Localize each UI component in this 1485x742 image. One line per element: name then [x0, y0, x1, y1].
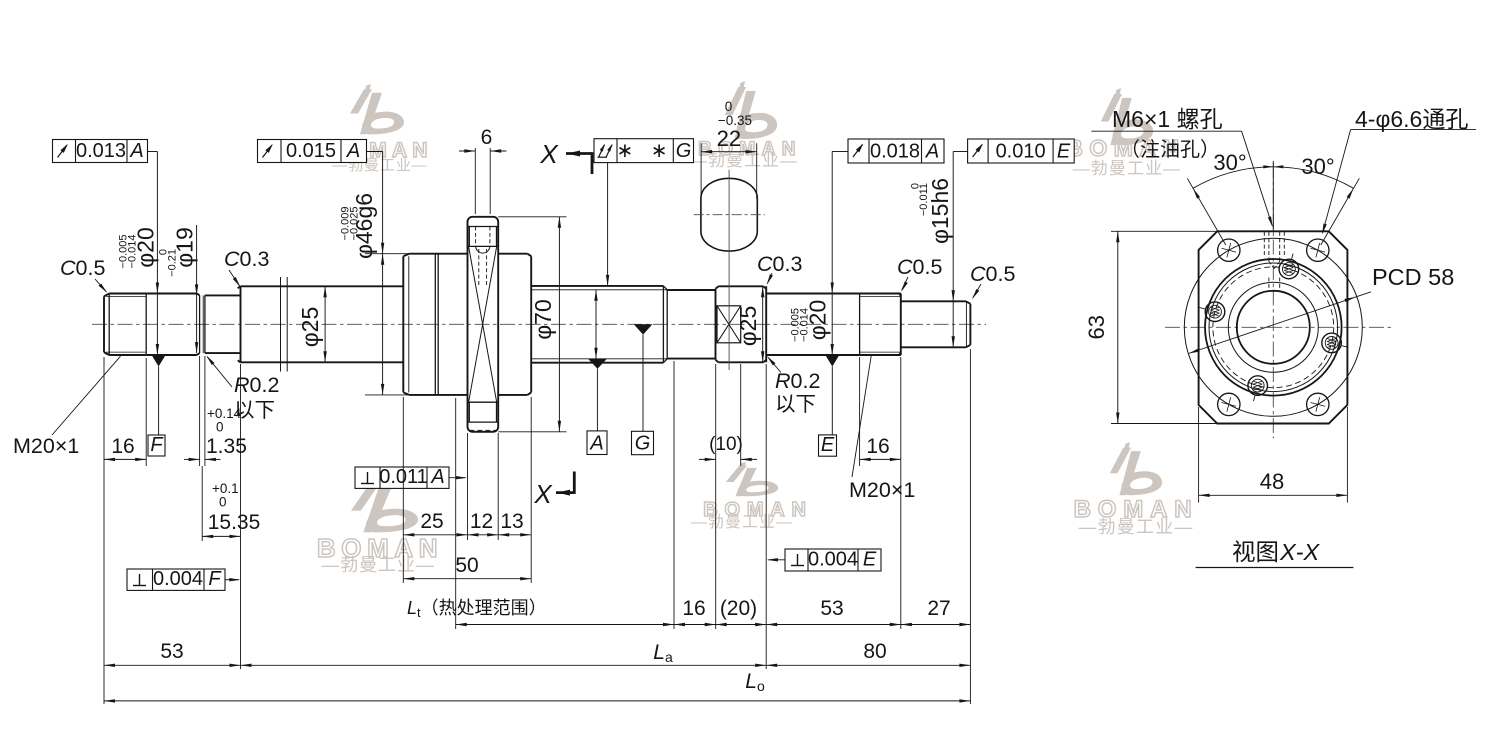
feature control frame runout 0.018 A: [848, 139, 944, 163]
svg-text:53: 53: [820, 597, 843, 620]
svg-text:R0.2: R0.2: [775, 369, 820, 393]
svg-text:16: 16: [866, 435, 889, 458]
svg-text:0: 0: [219, 495, 227, 510]
dim 63: [1111, 230, 1219, 232]
X-X concentric circles: [1184, 238, 1362, 416]
svg-text:0.015: 0.015: [286, 140, 336, 162]
neck (20) section: [667, 289, 715, 291]
dim phi70: [498, 216, 566, 218]
dim Lo: [104, 700, 970, 702]
svg-text:E: E: [1057, 141, 1071, 163]
neck phi19: [205, 294, 241, 296]
watermark logo top-right: [1101, 88, 1153, 145]
journal phi25 right: [715, 289, 717, 360]
journal phi20 right and thread M20x1 right: [766, 293, 901, 295]
svg-text:22: 22: [717, 126, 741, 151]
thread M20x1 left: [103, 296, 105, 352]
dim screw root: [595, 290, 597, 359]
watermark logo top-center: [725, 81, 777, 139]
ball detail ellipse: [701, 178, 757, 251]
svg-text:—勃曼工业—: —勃曼工业—: [321, 555, 434, 575]
dim 1.35: [184, 458, 200, 460]
nut body left phi46: [402, 256, 404, 392]
svg-text:16: 16: [682, 597, 705, 620]
datum F: [152, 355, 166, 367]
X-X 4 M6 set screws: [1279, 259, 1299, 279]
svg-text:27: 27: [927, 597, 950, 620]
svg-text:—勃曼工业—: —勃曼工业—: [1078, 517, 1193, 537]
extension lines: [103, 357, 105, 704]
feature control frame runout 0.013 A: [53, 140, 148, 163]
svg-text:0: 0: [725, 99, 733, 114]
svg-text:63: 63: [1084, 315, 1109, 339]
svg-text:53: 53: [160, 640, 183, 663]
svg-text:A: A: [589, 433, 603, 455]
frame perpendicularity 0.004 F: [127, 569, 225, 590]
dim row Lt 16 20 53 27: [456, 624, 971, 626]
watermark logo top-left: [350, 84, 404, 134]
svg-text:A: A: [346, 140, 360, 162]
svg-text:X-X: X-X: [1279, 539, 1321, 565]
dim (10): [699, 458, 716, 460]
svg-text:30°: 30°: [1301, 154, 1334, 179]
svg-text:—勃曼工业—: —勃曼工业—: [690, 151, 798, 170]
ball screw thread: [531, 285, 663, 287]
svg-text:C0.5: C0.5: [897, 255, 942, 279]
svg-text:PCD 58: PCD 58: [1372, 264, 1454, 290]
dim phi19: [196, 225, 198, 353]
svg-text:A: A: [129, 140, 143, 162]
svg-text:0.010: 0.010: [996, 141, 1046, 163]
svg-text:φ15h6: φ15h6: [927, 178, 953, 244]
svg-text:48: 48: [1260, 469, 1284, 494]
feature control frame runout 0.015 A: [258, 140, 367, 163]
svg-text:M6×1 螺孔: M6×1 螺孔: [1112, 106, 1223, 132]
svg-text:25: 25: [420, 510, 443, 533]
dim 6: [474, 148, 476, 214]
svg-text:16: 16: [111, 435, 134, 458]
dim 48: [1198, 407, 1200, 503]
svg-text:−0.025: −0.025: [348, 207, 360, 241]
svg-text:∗ ∗: ∗ ∗: [616, 140, 673, 162]
svg-text:6: 6: [481, 126, 493, 149]
svg-text:12: 12: [470, 510, 493, 533]
svg-text:4-φ6.6通孔: 4-φ6.6通孔: [1355, 106, 1468, 132]
wrench flat cross box: [717, 306, 741, 343]
break lines: [280, 277, 282, 372]
svg-text:13: 13: [500, 510, 523, 533]
watermark logo mid-center: [726, 462, 778, 496]
frame perpendicularity 0.004 E: [785, 549, 881, 571]
feature control frame total runout ** G: [594, 139, 694, 163]
feature control frame runout 0.010 E: [968, 139, 1075, 163]
dims 30 degrees: [1187, 178, 1226, 245]
svg-text:−0.35: −0.35: [718, 113, 752, 128]
shaft centerline: [92, 323, 986, 325]
nut flange phi70: [468, 217, 499, 432]
datum G: [634, 324, 653, 334]
X-X centerlines: [1165, 326, 1392, 328]
svg-text:G: G: [635, 433, 651, 455]
svg-text:50: 50: [455, 554, 478, 577]
dims 25 12 13: [403, 534, 531, 536]
relief groove 1.35: [199, 295, 201, 353]
dim phi25 left: [324, 286, 326, 362]
svg-text:C0.5: C0.5: [970, 262, 1015, 286]
dim 50: [403, 578, 531, 580]
svg-text:0.013: 0.013: [76, 140, 126, 162]
X-X 4 phi6.6 through holes: [1218, 239, 1240, 261]
svg-text:−0.014: −0.014: [126, 235, 138, 269]
svg-text:1.35: 1.35: [206, 435, 247, 458]
svg-text:X: X: [539, 139, 559, 169]
watermark logo right: [1110, 442, 1162, 495]
watermark logo mid-left: [351, 480, 418, 532]
svg-text:0: 0: [216, 420, 224, 435]
svg-text:C0.3: C0.3: [757, 252, 802, 276]
svg-text:M20×1: M20×1: [13, 434, 79, 458]
shaft end phi15h6: [901, 300, 966, 302]
svg-text:以下: 以下: [775, 393, 816, 416]
label phi46g6: [365, 253, 410, 255]
svg-text:80: 80: [863, 640, 886, 663]
svg-text:+0.14: +0.14: [207, 406, 242, 421]
svg-text:E: E: [821, 434, 835, 456]
svg-text:A: A: [925, 141, 939, 163]
svg-text:M20×1: M20×1: [849, 478, 915, 502]
svg-text:(20): (20): [720, 597, 757, 620]
datum E: [825, 355, 839, 367]
svg-text:G: G: [676, 140, 692, 162]
svg-text:X: X: [533, 479, 553, 509]
svg-text:—勃曼工业—: —勃曼工业—: [1073, 159, 1182, 178]
svg-text:(10): (10): [709, 434, 743, 455]
svg-text:C0.5: C0.5: [60, 256, 105, 280]
X-X flange octagon: [1199, 231, 1348, 423]
journal phi20 left: [146, 293, 197, 295]
frame perpendicularity 0.011 A: [355, 467, 449, 488]
svg-text:Lt（热处理范围）: Lt（热处理范围）: [407, 598, 547, 620]
svg-text:0.004: 0.004: [153, 568, 203, 590]
svg-text:−0.21: −0.21: [166, 249, 178, 277]
svg-text:φ70: φ70: [530, 299, 556, 340]
svg-text:−0.014: −0.014: [798, 308, 810, 342]
dim 22 with tolerance: [700, 143, 702, 199]
datum A: [588, 359, 607, 369]
svg-text:φ25: φ25: [297, 307, 323, 348]
shaft phi25 left section: [240, 286, 242, 362]
dim row 53 La 80: [104, 664, 970, 666]
svg-text:φ25: φ25: [735, 306, 761, 347]
svg-text:−0.011: −0.011: [918, 183, 930, 216]
svg-text:E: E: [863, 549, 877, 571]
M6 oil hole hidden lines: [475, 227, 477, 247]
svg-text:0.004: 0.004: [808, 549, 858, 571]
svg-text:F: F: [208, 568, 222, 590]
dim 15.35: [202, 535, 240, 537]
svg-text:0.018: 0.018: [870, 141, 920, 163]
svg-text:A: A: [430, 466, 444, 488]
svg-text:15.35: 15.35: [208, 511, 261, 534]
dim phi25 right: [762, 286, 764, 362]
nut body right: [498, 253, 527, 255]
svg-text:（注油孔）: （注油孔）: [1120, 138, 1220, 161]
dim 16 right: [860, 458, 901, 460]
svg-text:—勃曼工业—: —勃曼工业—: [691, 513, 793, 531]
X-X M6 oil hole hidden: [1263, 232, 1265, 256]
svg-text:F: F: [150, 434, 164, 456]
dim 16 left: [104, 458, 146, 460]
svg-text:C0.3: C0.3: [224, 247, 269, 271]
svg-text:视图: 视图: [1232, 539, 1279, 565]
